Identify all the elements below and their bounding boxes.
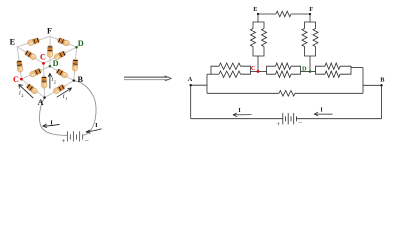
resistor on edge F-D2	[47, 45, 53, 57]
battery (cube circuit)	[67, 131, 82, 141]
current arrow I (left of battery, cube circuit)	[43, 124, 60, 128]
parallel pair box3 frame	[316, 66, 326, 71]
wire edge F-E	[17, 36, 50, 46]
wire pair down to D	[309, 56, 311, 72]
resistor box1 bottom	[219, 71, 241, 77]
node D (top right, green)	[75, 46, 78, 49]
wire battery to B	[74, 81, 96, 135]
wire E down to pair	[257, 14, 259, 22]
current arrow i1 (A-B edge)	[57, 88, 72, 97]
resistor on edge D-C2	[29, 68, 43, 78]
wire box3 to right junction	[351, 67, 363, 69]
node A (right)	[190, 84, 192, 86]
resistor F-pair left	[302, 29, 307, 47]
resistor E-pair right	[262, 29, 267, 47]
svg-text:2: 2	[21, 93, 23, 98]
parallel resistor pair below E : frame	[253, 22, 264, 29]
svg-text:2: 2	[54, 79, 56, 84]
wire pair down to C	[257, 56, 259, 72]
svg-text:F: F	[47, 26, 52, 35]
wire D to box3	[310, 71, 316, 73]
parallel pair box1 frame	[211, 66, 219, 74]
svg-text:E: E	[253, 6, 257, 13]
wire box1 to C	[251, 71, 259, 73]
wire B down	[381, 85, 383, 118]
wire bottom branch left	[207, 92, 279, 94]
node C (right, red)	[257, 70, 260, 73]
node B	[73, 79, 75, 81]
wire A down	[190, 85, 192, 119]
node D (bottom back, green)	[49, 65, 52, 68]
wire edge F-D	[50, 36, 76, 47]
wire C to box2	[258, 71, 267, 73]
resistor on edge C-A2	[41, 76, 47, 88]
parallel resistor pair below F : frame	[305, 22, 316, 29]
svg-text:A: A	[188, 76, 193, 83]
svg-text:E: E	[10, 38, 16, 47]
wire F down to pair	[309, 14, 311, 22]
svg-text:–: –	[84, 136, 89, 144]
wire edge D-C2	[21, 66, 50, 79]
svg-text:D: D	[53, 59, 59, 68]
resistor on edge F-D	[57, 37, 70, 47]
resistor bottom branch	[279, 91, 295, 97]
current arrow I right (equivalent circuit)	[314, 112, 332, 116]
svg-text:+: +	[276, 121, 280, 128]
current arrow i2 (vertical, C-A middle)	[48, 73, 52, 88]
resistor box2 top	[276, 63, 292, 69]
node F (right)	[309, 13, 311, 15]
current arrow I left (equivalent circuit)	[233, 113, 251, 117]
wire bottom right	[296, 118, 381, 120]
wire right junction to B	[363, 84, 382, 86]
wire edge E-C	[17, 47, 43, 64]
wire box2 to D	[301, 71, 311, 73]
svg-text:C: C	[40, 53, 46, 62]
node C (bottom left, red)	[20, 78, 23, 81]
parallel pair box2 frame	[267, 66, 276, 71]
node A	[43, 96, 45, 98]
resistor F-pair right	[313, 29, 318, 47]
wire edge D-C	[44, 47, 77, 63]
resistor box1 top	[219, 63, 241, 69]
node B (right)	[380, 84, 382, 86]
svg-text:–: –	[298, 119, 303, 126]
wire edge C-A	[21, 79, 44, 98]
node C (top front, red)	[42, 62, 45, 65]
resistor box2 bottom	[276, 71, 292, 77]
resistor between E and F	[276, 11, 291, 17]
resistor E-pair left	[251, 29, 256, 47]
current arrow I (right of battery, cube circuit)	[86, 129, 101, 134]
resistor on edge D-B	[55, 68, 68, 79]
svg-text:A: A	[38, 98, 44, 107]
resistor box3 bottom	[325, 71, 340, 77]
wire edge C-A2	[44, 63, 45, 97]
current arrow i2 (C-A edge)	[19, 85, 33, 99]
resistor on edge D-B2	[72, 59, 79, 72]
svg-text:+: +	[62, 137, 66, 145]
svg-text:C: C	[251, 65, 256, 72]
resistor on edge E-C2	[16, 60, 23, 73]
svg-text:1: 1	[65, 96, 67, 101]
svg-text:D: D	[302, 65, 307, 72]
svg-text:D: D	[78, 39, 84, 48]
resistor box3 top	[325, 63, 340, 69]
resistor on edge D-C	[53, 50, 67, 61]
svg-text:F: F	[309, 6, 313, 13]
wire edge D-B2	[74, 47, 77, 80]
wire E-F top	[258, 13, 276, 15]
junction vertical left	[206, 74, 208, 93]
svg-text:B: B	[77, 75, 83, 84]
wire edge E-C2	[17, 47, 21, 79]
resistor on edge C-A	[25, 83, 38, 95]
battery (equivalent circuit)	[283, 113, 297, 124]
node D (right, green)	[309, 70, 312, 73]
wire edge B-A	[45, 81, 74, 98]
wire A to junction	[191, 84, 207, 86]
wire A to battery	[39, 98, 67, 136]
resistor on edge B-A	[52, 84, 65, 95]
node E (right)	[257, 13, 259, 15]
resistor on edge E-C	[24, 49, 37, 60]
wire bottom branch right	[295, 92, 363, 94]
resistor on edge F-E	[27, 37, 40, 46]
wire bottom left	[191, 118, 283, 120]
implication arrow between circuits	[124, 76, 171, 81]
wire edge D-B	[50, 66, 74, 80]
wire edge F-D2	[49, 36, 51, 66]
svg-text:C: C	[13, 75, 19, 84]
